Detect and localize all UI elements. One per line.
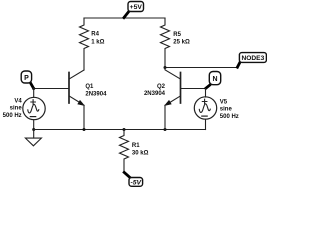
svg-text:sine: sine (220, 106, 233, 112)
svg-text:2N3904: 2N3904 (144, 91, 166, 97)
junction P / V4 / base (32, 87, 35, 90)
wire top rail (84, 17, 165, 19)
svg-text:-5V: -5V (131, 180, 143, 187)
junction collector Q2 / R5 (164, 66, 167, 69)
node P (21, 71, 33, 88)
svg-text:30 kΩ: 30 kΩ (132, 150, 149, 156)
resistor R4 (80, 18, 105, 70)
resistor R1 (120, 130, 149, 173)
resistor R5 (161, 18, 190, 68)
ground (25, 130, 41, 146)
wire to NODE3 (165, 67, 238, 69)
svg-text:1 kΩ: 1 kΩ (91, 39, 104, 45)
svg-text:R5: R5 (173, 32, 181, 38)
svg-text:Q2: Q2 (157, 84, 166, 90)
svg-text:2N3904: 2N3904 (85, 91, 107, 97)
wire Q1 emitter (83, 105, 85, 129)
svg-text:500 Hz: 500 Hz (220, 114, 239, 120)
svg-text:R1: R1 (132, 143, 140, 149)
wire Q2 base (181, 88, 205, 90)
svg-text:+5V: +5V (130, 4, 143, 11)
svg-text:V4: V4 (14, 99, 22, 105)
transistor Q1 (69, 70, 107, 105)
junction V4 / ground (32, 128, 35, 131)
svg-text:R4: R4 (91, 31, 99, 37)
svg-text:NODE3: NODE3 (242, 55, 265, 62)
wire N to V5 (205, 89, 207, 98)
wire P to V4 (33, 89, 35, 98)
source V5 (194, 97, 239, 120)
svg-text:V5: V5 (220, 99, 228, 105)
node N (206, 72, 221, 89)
svg-text:P: P (24, 75, 29, 82)
transistor Q2 (144, 68, 181, 106)
junction R1 / rail (123, 128, 126, 131)
svg-text:sine: sine (10, 106, 23, 112)
wire bottom rail (34, 129, 206, 131)
svg-text:Q1: Q1 (85, 84, 94, 90)
source V4 (3, 97, 46, 119)
junction Q2 emitter / rail (164, 128, 167, 131)
svg-text:25 kΩ: 25 kΩ (173, 40, 190, 46)
junction Q1 emitter / rail (83, 128, 86, 131)
wire V5 to rail (205, 119, 207, 129)
wire V4 to ground rail (33, 120, 35, 130)
node NODE3 (237, 53, 266, 68)
svg-text:N: N (212, 76, 217, 83)
wire Q1 base (34, 88, 68, 90)
+5V power flag (124, 2, 144, 18)
-5V power flag (124, 172, 142, 186)
wire Q2 emitter (164, 105, 166, 129)
svg-text:500 Hz: 500 Hz (3, 113, 22, 119)
